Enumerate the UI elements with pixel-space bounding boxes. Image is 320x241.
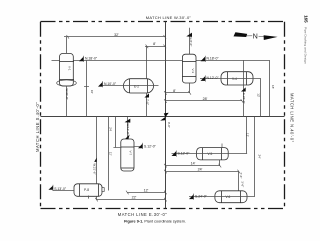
E-2 centerline — [100, 85, 159, 87]
svg-text:V-7: V-7 — [129, 151, 133, 156]
svg-text:24': 24' — [258, 155, 262, 159]
main E-W centerline y=117 — [41, 116, 285, 118]
pump P-8 — [74, 184, 104, 197]
match line border (dashed battery limit) — [41, 22, 285, 209]
svg-text:V-6: V-6 — [226, 195, 231, 199]
dim 8' line (E-2 to N-S line) — [145, 45, 166, 49]
svg-text:P-8: P-8 — [84, 188, 89, 192]
svg-text:MATCH LINE E.30'-0": MATCH LINE E.30'-0" — [118, 212, 167, 217]
svg-text:N.18'-0": N.18'-0" — [207, 57, 220, 61]
svg-text:N.18'-0": N.18'-0" — [85, 57, 98, 61]
svg-text:MATCH LINE W.30'-0": MATCH LINE W.30'-0" — [146, 15, 192, 20]
svg-text:V-5: V-5 — [208, 152, 213, 156]
dim 22' line — [89, 196, 167, 202]
svg-text:S.12'-0": S.12'-0" — [178, 151, 191, 155]
flag N.12'-0" (V-4) — [201, 75, 220, 81]
dim 8' (V-3 offset) — [164, 91, 191, 95]
V-5 centerline — [172, 153, 248, 155]
flag N.10'-0" (E-2) — [98, 81, 117, 87]
svg-text:0'-0": 0'-0" — [167, 122, 171, 128]
vertical dim x=254.8 (V-6 S coord) — [254, 117, 256, 197]
ext line x=115.5 to V-7 upper tangent — [115, 117, 117, 148]
svg-text:12': 12' — [257, 93, 261, 97]
svg-text:28': 28' — [203, 97, 208, 101]
svg-text:N: N — [253, 32, 258, 41]
svg-text:S.24'-0": S.24'-0" — [195, 194, 208, 198]
svg-text:32': 32' — [114, 33, 119, 37]
svg-text:24': 24' — [108, 127, 112, 131]
svg-text:165: 165 — [304, 15, 309, 23]
V-3 bottom ext to 8' dim — [189, 83, 191, 93]
V-6 centerline — [189, 196, 255, 198]
dim 32' line — [64, 35, 166, 39]
V-3 top locating line with flag + coord — [189, 28, 191, 54]
V-5 right end ext down — [219, 160, 221, 166]
svg-text:V-3: V-3 — [191, 69, 195, 74]
svg-text:MATCH LINE N.40'-0": MATCH LINE N.40'-0" — [290, 93, 295, 143]
P-8 E-W locating line with flag + coord — [96, 117, 98, 184]
vessel V-7 (vertical drum lower-left) — [121, 139, 134, 171]
flag N.18'-0" (V-3 row, right) — [201, 56, 220, 62]
V-4 centerline — [200, 78, 261, 80]
svg-text:N.12'-0": N.12'-0" — [207, 76, 220, 80]
svg-text:8': 8' — [173, 89, 176, 93]
svg-text:12': 12' — [109, 152, 113, 156]
V-1 locating line below with coord text — [66, 86, 68, 117]
V-5 top nozzle tick — [221, 144, 223, 148]
svg-text:12': 12' — [144, 189, 149, 193]
svg-text:8': 8' — [153, 42, 156, 46]
vertical dim x=269.7 (N.18 row) — [269, 60, 271, 117]
main N-S centerline x=165.4 — [165, 22, 167, 208]
svg-text:MATCH LINE S.40'-0": MATCH LINE S.40'-0" — [35, 102, 40, 152]
vessel V-1 (vertical drum top-left) — [57, 54, 77, 87]
svg-text:E-2: E-2 — [134, 84, 139, 88]
svg-text:7'-6": 7'-6" — [239, 172, 243, 178]
svg-text:V-1: V-1 — [68, 66, 72, 71]
dim 24' — [164, 170, 240, 174]
vessel V-4 (horizontal drum top-right) — [221, 72, 253, 85]
svg-text:W.30'-0": W.30'-0" — [65, 89, 69, 100]
flag S.24'-0" (V-6) — [189, 194, 208, 200]
V-1 centerline stub above + 32' extension — [66, 37, 68, 53]
svg-text:N.10'-0": N.10'-0" — [104, 82, 117, 86]
vertical dim x=260.7 (V-4 N coord) — [260, 78, 262, 117]
vertical dim x=247.1 (V-5 S coord) — [246, 117, 248, 154]
ext x=238.8 down to V-6 with labels — [238, 172, 240, 191]
vessel V-6 (horizontal drum bottom-right) — [215, 191, 247, 203]
svg-text:14': 14' — [191, 162, 196, 166]
tick at exchanger CL — [84, 86, 89, 88]
svg-text:Pipe Drafting and Design: Pipe Drafting and Design — [304, 27, 308, 64]
N.18' centerline row y=60.3 — [52, 60, 270, 62]
flag S.12'-0" (V-5) — [172, 151, 191, 157]
svg-text:W.12'-0": W.12'-0" — [126, 124, 130, 135]
V-7 side tick + label S.12'-0" — [134, 146, 143, 148]
P-8 centerline + flag S.13'-0" — [53, 190, 75, 192]
flag N.18'-0" (for V-1 row) — [79, 56, 98, 62]
svg-text:S.12'-0": S.12'-0" — [144, 145, 157, 149]
svg-text:W.21'-6": W.21'-6" — [92, 163, 96, 174]
svg-text:12': 12' — [245, 133, 249, 137]
north arrow — [234, 32, 278, 41]
svg-text:22': 22' — [132, 196, 137, 200]
vertical dim x=86.3 (18'/10') — [86, 60, 88, 117]
svg-text:7'-0": 7'-0" — [145, 99, 149, 105]
svg-text:18': 18' — [271, 85, 275, 89]
svg-text:10': 10' — [90, 90, 94, 94]
dim 28' — [164, 99, 243, 103]
E-2 nozzle/locating lines — [146, 46, 148, 78]
vessel V-3 (vertical drum top-center) — [182, 54, 196, 83]
svg-text:3'-6": 3'-6" — [241, 181, 245, 187]
svg-text:S.13'-0": S.13'-0" — [54, 187, 67, 191]
svg-text:E.8'-0": E.8'-0" — [189, 38, 193, 47]
svg-text:24': 24' — [198, 167, 203, 171]
vertical dim x=108.5 (24') — [108, 117, 110, 191]
dim 14' — [164, 164, 221, 168]
dim 12' line — [126, 191, 167, 195]
V-7 top locating line with flag + coord — [127, 117, 129, 139]
svg-text:Figure 9-1. Plant coordinate: Figure 9-1. Plant coordinate system. — [124, 220, 186, 224]
exchanger E-2 (horizontal) — [124, 79, 154, 93]
vessel V-5 (horizontal drum lower-right upper) — [197, 148, 229, 160]
V-4 E-W locating line with flag — [243, 60, 245, 117]
origin marker (black flag at plant origin) — [160, 113, 169, 121]
